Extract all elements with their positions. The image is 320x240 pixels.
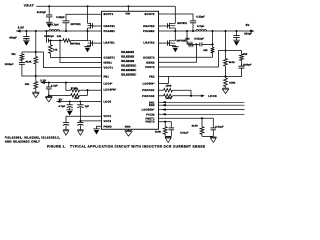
junction FB2 node xyxy=(224,75,226,77)
IC part number list xyxy=(121,50,137,77)
junction VCC2 node xyxy=(79,120,81,122)
capacitor 4x10uF xyxy=(46,6,52,22)
resistor 10k FB1 bottom label xyxy=(25,83,30,86)
node LDO5 pullup label xyxy=(208,95,217,98)
ground below 330uF output 2 xyxy=(233,40,240,46)
svg-text:10k: 10k xyxy=(25,83,30,86)
resistor 750 ch1 xyxy=(20,52,24,61)
wire ISEN2 xyxy=(159,44,197,62)
junction PGOOD pullup node xyxy=(190,95,192,97)
svg-text:750: 750 xyxy=(11,53,16,56)
figure caption xyxy=(47,145,205,149)
wire EN1 input xyxy=(159,101,245,104)
wire PHASE1 / output line xyxy=(16,30,101,32)
svg-text:0.022µF: 0.022µF xyxy=(44,35,54,38)
wire LDO5EN input xyxy=(159,108,245,111)
junction divider1 VOUT tap xyxy=(35,51,37,53)
junction phase1 at Q1 xyxy=(86,30,88,32)
svg-text:VBAT: VBAT xyxy=(24,4,34,8)
op-amp U1 ISL6238x controller IC body xyxy=(102,11,159,129)
resistor 750 ch1 label xyxy=(11,53,16,56)
svg-text:4x10µF: 4x10µF xyxy=(37,11,47,14)
pin VIN label xyxy=(125,12,130,15)
wire LDO3 xyxy=(41,82,102,84)
wire VIN riser xyxy=(128,6,130,11)
svg-text:14k: 14k xyxy=(203,49,208,52)
wire GND stub xyxy=(128,129,130,130)
junction FB1 node xyxy=(35,75,37,77)
svg-text:5V: 5V xyxy=(246,23,250,27)
capacitor 4.7uF LDO3 label xyxy=(51,85,58,88)
ground below VCC2 cap xyxy=(77,130,83,135)
transistor Q2 IRF7832 label xyxy=(70,43,80,46)
resistor 66.1k label xyxy=(229,61,236,64)
junction LDO3 at 4.7uF xyxy=(48,82,50,84)
resistor 49.9k label xyxy=(25,60,32,63)
svg-text:UGATE2: UGATE2 xyxy=(143,25,155,28)
wire sense cap riser 2 xyxy=(212,31,214,44)
svg-text:14k: 14k xyxy=(57,35,62,38)
svg-text:19.6k: 19.6k xyxy=(155,130,162,133)
resistor 10k LDO3FB bottom label xyxy=(74,97,79,100)
svg-text:330µF: 330µF xyxy=(244,33,252,36)
wire LGATE1 xyxy=(93,42,102,44)
capacitor 330uF output 1 label xyxy=(9,36,17,39)
inductor L1 4.7uH label xyxy=(51,24,58,27)
wire Q1 source to phase xyxy=(87,28,89,31)
wire VBAT rail xyxy=(36,5,175,7)
footnote text xyxy=(5,135,60,143)
inductor L1 4.7uH xyxy=(49,30,60,31)
capacitor 4x10uF value label xyxy=(37,11,47,14)
resistor 100k PGOOD1 label xyxy=(166,85,172,88)
resistor 66.1k FB2 top xyxy=(224,51,228,77)
svg-text:IRF7821: IRF7821 xyxy=(177,22,187,25)
svg-text:OCSET1: OCSET1 xyxy=(104,57,116,60)
svg-text:ISL62381: ISL62381 xyxy=(121,50,134,54)
wire to LDO5 pullup xyxy=(191,95,201,97)
junction sense row 2 at OCSET2 resistor xyxy=(211,43,213,45)
wire Q4 source to ground xyxy=(174,45,176,46)
ground below FSET2 network xyxy=(165,137,172,142)
svg-text:FSET2: FSET2 xyxy=(146,121,155,124)
svg-text:ISL62382C: ISL62382C xyxy=(121,68,137,72)
svg-text:VCC2: VCC2 xyxy=(104,120,112,123)
svg-text:LGATE1: LGATE1 xyxy=(104,42,116,45)
wire FSET2 network bottom xyxy=(165,135,171,137)
wire Q2 source to ground xyxy=(87,45,89,46)
resistor 14k OCSET2 xyxy=(211,44,215,57)
wire EN2 input xyxy=(159,104,245,107)
svg-text:VIN: VIN xyxy=(125,12,130,15)
wire ISEN1 xyxy=(60,41,102,63)
svg-text:24.3k: 24.3k xyxy=(192,125,199,128)
junction sense row at OCSET1 resistor xyxy=(49,39,51,41)
svg-text:1200µF: 1200µF xyxy=(5,63,14,66)
wire UGATE1 xyxy=(93,25,102,27)
IC left pin labels xyxy=(104,13,117,128)
wire VBAT to Q3 drain xyxy=(174,6,176,23)
junction LDO3FB node xyxy=(86,89,88,91)
svg-text:EN2: EN2 xyxy=(149,104,155,107)
capacitor 0.01uF FSET1 label xyxy=(215,126,224,129)
ground below 9.09k FB2 xyxy=(222,88,229,93)
node 3.3V output label xyxy=(18,25,24,29)
ground below 330uF output 1 xyxy=(23,40,30,46)
wire sense row 1a xyxy=(49,40,63,42)
wire ground bus LDO3 xyxy=(49,95,71,97)
resistor 10k LDO3FB bottom xyxy=(71,94,88,98)
ground below Q4 xyxy=(172,47,179,53)
wire phase1 to Q2 drain xyxy=(87,31,89,41)
junction divider2 VOUT tap xyxy=(224,49,226,51)
svg-text:FIGURE 1.: FIGURE 1. xyxy=(47,145,66,149)
svg-text:VOUT1: VOUT1 xyxy=(104,67,114,70)
pin GND label xyxy=(125,126,131,129)
resistor 19.6k FSET2 label xyxy=(155,130,162,133)
wire VOUT1 xyxy=(36,52,102,68)
inductor L2 4.7uH label xyxy=(197,25,204,28)
inductor L2 4.7uH xyxy=(196,30,207,31)
capacitor 0.022uF sense 2 xyxy=(200,42,213,46)
junction LDO5 at 4.7uF xyxy=(69,100,71,102)
capacitor 330uF output 1 xyxy=(23,31,29,40)
svg-text:4.7µF: 4.7µF xyxy=(58,105,65,108)
junction phase2 at bootstrap cap xyxy=(192,30,194,32)
capacitor 330uF output 2 xyxy=(233,31,239,40)
wire sense row 1b xyxy=(71,40,88,42)
svg-text:PHASE1: PHASE1 xyxy=(104,30,116,33)
svg-text:PGOOD2: PGOOD2 xyxy=(142,95,155,98)
svg-text:1µF: 1µF xyxy=(85,105,90,108)
svg-text:LDO5EN*: LDO5EN* xyxy=(142,109,155,112)
resistor 100k PGOOD1 xyxy=(159,88,192,95)
svg-text:0.22µF: 0.22µF xyxy=(196,16,205,19)
transistor Q4 IRF7832 label xyxy=(177,39,187,42)
wire VCC2 xyxy=(80,120,101,122)
arrow LDO5 pullup xyxy=(201,94,205,97)
wire LDO3FB node xyxy=(80,89,88,91)
junction LDO5 at 1uF xyxy=(79,100,81,102)
node VBAT label xyxy=(24,4,34,8)
wire PHASE2 / output line 2 xyxy=(159,30,251,32)
resistor 9.09k FB2 bottom xyxy=(224,77,228,89)
IC right pin labels xyxy=(142,13,155,124)
resistor 17.4k LDO3FB xyxy=(66,83,80,92)
junction sense row 2 at ISEN2 xyxy=(195,43,197,45)
resistor 9.09k FB2 bottom label xyxy=(229,82,236,85)
svg-text:4.7µH: 4.7µH xyxy=(51,24,58,27)
svg-text:IRF7821: IRF7821 xyxy=(71,23,81,26)
junction phase2 at Q3 xyxy=(174,30,176,32)
junction output2 at sense cap xyxy=(211,30,213,32)
capacitor 0.22uF bootstrap 2 xyxy=(190,21,197,31)
resistor 14k sense 2 label xyxy=(185,37,190,40)
capacitor 1200uF ch2 xyxy=(226,61,245,77)
svg-text:VOUT2: VOUT2 xyxy=(145,66,155,69)
svg-text:LGATE2: LGATE2 xyxy=(143,42,155,45)
capacitor 330uF output 2 label xyxy=(244,33,252,36)
resistor 19.6k FSET2 xyxy=(163,122,167,137)
wire VCC1 xyxy=(66,115,102,117)
svg-text:LDO3*: LDO3* xyxy=(104,82,113,85)
svg-text:9.09k: 9.09k xyxy=(229,82,236,85)
svg-text:49.9k: 49.9k xyxy=(25,60,32,63)
capacitor 0.22uF bootstrap 2 label xyxy=(196,16,205,19)
resistor 17.4k LDO3FB label xyxy=(71,87,78,90)
capacitor 4.7uF LDO5 xyxy=(67,102,73,110)
svg-text:4.7µH: 4.7µH xyxy=(197,25,204,28)
resistor 14k sense 1 label xyxy=(57,35,62,38)
junction on VBAT rail at VIN xyxy=(127,5,129,7)
wire Q1 drain xyxy=(87,6,89,23)
capacitor 1200uF ch1 xyxy=(19,61,36,77)
arrow 5V output xyxy=(250,30,254,33)
capacitor 4.7uF LDO3 xyxy=(46,83,52,96)
wire BOOT1 xyxy=(66,14,102,21)
capacitor 0.01uF FSET2 xyxy=(169,122,175,137)
wire OCSET1 xyxy=(50,57,101,59)
wire LGATE2 xyxy=(159,42,168,44)
junction output1 at divider xyxy=(35,30,37,32)
capacitor 4.7uF LDO5 label xyxy=(58,105,65,108)
resistor 14k OCSET1 xyxy=(49,41,53,58)
node 5V output label xyxy=(246,23,250,27)
svg-text:ISL62383: ISL62383 xyxy=(121,59,134,63)
svg-text:FB1: FB1 xyxy=(104,76,110,79)
wire BOOT2 xyxy=(159,14,194,21)
wire UGATE2 xyxy=(159,25,168,27)
svg-text:IRF7832: IRF7832 xyxy=(70,43,80,46)
node LDO5 5V label xyxy=(59,99,63,102)
svg-text:330µF: 330µF xyxy=(9,36,17,39)
resistor 100k PGOOD2 xyxy=(159,94,192,98)
junction FSET2 at resistor xyxy=(164,121,166,123)
wire LDO3FB xyxy=(87,89,101,91)
wire sense row 2a xyxy=(193,43,200,45)
wire FB2 xyxy=(159,76,226,78)
wire VOUT2 xyxy=(159,51,226,68)
junction LDO3 at 17.4k xyxy=(65,82,67,84)
junction on VBAT rail at input cap xyxy=(48,5,50,7)
svg-text:PGND: PGND xyxy=(104,125,112,128)
junction output1 at 330uF xyxy=(25,30,27,32)
wire divider2 top xyxy=(225,31,227,51)
ground below 10k FB1 xyxy=(32,92,39,97)
ground below VCC1 cap xyxy=(63,130,69,135)
resistor 750 ch2 xyxy=(240,51,244,61)
svg-text:100k: 100k xyxy=(166,85,172,88)
svg-text:3.3V: 3.3V xyxy=(18,25,24,29)
svg-text:OCSET2: OCSET2 xyxy=(143,56,155,59)
capacitor 0.01uF FSET1 xyxy=(211,118,217,136)
svg-text:AND ISL62382C ONLY: AND ISL62382C ONLY xyxy=(5,140,40,144)
resistor 14k OCSET2 label xyxy=(203,49,208,52)
svg-text:ISL62383C: ISL62383C xyxy=(121,73,137,77)
resistor 750 ch2 label xyxy=(243,53,248,56)
transistor Q1 IRF7821 high-side MOSFET xyxy=(88,23,93,29)
transistor Q3 IRF7821 label xyxy=(177,22,187,25)
junction output2 at 330uF xyxy=(235,30,237,32)
wire 750 branch top 2 xyxy=(226,50,242,52)
ground below LDO3 cap xyxy=(45,97,52,102)
junction phase2 at sense resistor xyxy=(186,30,188,32)
svg-text:TYPICAL APPLICATION CIRCUIT WI: TYPICAL APPLICATION CIRCUIT WITH INDUCTO… xyxy=(70,145,205,149)
capacitor 0.01uF FSET2 label xyxy=(180,132,189,135)
junction sense row at ISEN1 xyxy=(59,39,61,41)
capacitor 1uF VCC filter xyxy=(77,102,83,121)
svg-text:BOOT2: BOOT2 xyxy=(145,13,155,16)
ground below LDO5 4.7uF xyxy=(66,110,73,116)
ground below PGND xyxy=(93,129,100,135)
capacitor 0.022uF sense 1 label xyxy=(44,35,54,38)
capacitor 0.22uF bootstrap 1 label xyxy=(56,16,65,19)
svg-text:VCC1: VCC1 xyxy=(104,115,112,118)
svg-text:0.22µF: 0.22µF xyxy=(56,16,65,19)
svg-text:PHASE2: PHASE2 xyxy=(143,30,155,33)
ground below Q2 xyxy=(84,47,91,53)
arrow LDO3 3.3V output xyxy=(41,81,45,84)
junction output2 at divider xyxy=(224,30,226,32)
wire FSET2 xyxy=(159,121,172,123)
arrow 3.3V output xyxy=(16,30,20,33)
resistor 14k OCSET1 label xyxy=(53,48,58,51)
wire LDO3FB to 10k xyxy=(86,90,88,95)
svg-text:0.022µF: 0.022µF xyxy=(194,37,204,40)
ground below FSET1 network xyxy=(210,137,217,142)
junction FSET1 at resistor xyxy=(201,117,203,119)
capacitor 1200uF ch2 label xyxy=(243,63,252,66)
transistor Q2 IRF7832 low-side MOSFET xyxy=(88,40,93,46)
resistor 100k PGOOD2 label xyxy=(166,97,172,100)
wire LDO5IN xyxy=(159,77,169,84)
svg-text:LDO5IN*: LDO5IN* xyxy=(143,82,155,85)
svg-text:BOOT1: BOOT1 xyxy=(104,13,114,16)
node LDO3 3.3V label xyxy=(40,79,46,82)
transistor Q1 IRF7821 label xyxy=(71,23,81,26)
wire 750 branch top xyxy=(22,51,36,53)
svg-text:LDO5: LDO5 xyxy=(104,101,112,104)
svg-text:FCCM: FCCM xyxy=(146,113,154,116)
capacitor 0.22uF bootstrap 1 xyxy=(63,21,70,31)
wire divider1 top xyxy=(35,31,37,52)
junction on VBAT rail at Q1 drain xyxy=(86,5,88,7)
wire LDO5 xyxy=(57,101,102,103)
wire FSET1 xyxy=(159,117,214,119)
junction phase1 at bootstrap cap xyxy=(65,30,67,32)
resistor 24.3k FSET1 label xyxy=(192,125,199,128)
capacitor VCC1 bypass xyxy=(63,116,69,130)
resistor 24.3k FSET1 xyxy=(200,118,204,136)
svg-text:0.01µF: 0.01µF xyxy=(215,126,224,129)
svg-text:ISEN2: ISEN2 xyxy=(146,61,155,64)
wire Q3 source to phase xyxy=(174,28,176,31)
svg-text:ISL62382: ISL62382 xyxy=(121,54,134,58)
resistor 10k FB1 bottom xyxy=(34,76,38,92)
junction LDO3 cap at ground bus xyxy=(48,94,50,96)
wire FCCM input xyxy=(159,113,245,116)
capacitor 1200uF ch1 label xyxy=(5,63,14,66)
svg-text:PGOOD1: PGOOD1 xyxy=(142,89,155,92)
svg-text:LDO3FB*: LDO3FB* xyxy=(104,89,117,92)
svg-text:GND: GND xyxy=(125,126,131,129)
wire OCSET2 xyxy=(159,56,213,58)
svg-text:ISL62381C: ISL62381C xyxy=(121,64,137,68)
wire FSET1 network bottom xyxy=(202,135,213,137)
capacitor 1uF VCC filter label xyxy=(85,105,90,108)
wire PGND xyxy=(97,126,102,129)
resistor 14k sense 1 xyxy=(63,39,71,43)
arrow LDO5 5V output xyxy=(57,100,61,103)
svg-text:UGATE1: UGATE1 xyxy=(104,25,116,28)
svg-text:LDO5: LDO5 xyxy=(208,95,217,98)
capacitor 0.022uF sense 1 xyxy=(47,31,49,43)
resistor 14k sense 2 xyxy=(187,31,193,46)
transistor Q3 IRF7821 high-side MOSFET xyxy=(168,23,176,29)
transistor Q4 IRF7832 low-side MOSFET xyxy=(168,40,176,46)
svg-text:14k: 14k xyxy=(185,37,190,40)
ground below 4x10uF xyxy=(46,22,53,28)
svg-text:4.7µF: 4.7µF xyxy=(51,85,58,88)
svg-text:14k: 14k xyxy=(53,48,58,51)
ground below IC GND pin xyxy=(125,131,133,136)
svg-text:FB2: FB2 xyxy=(149,76,155,79)
wire phase2 to Q4 drain xyxy=(174,31,176,41)
capacitor VCC2 bypass xyxy=(77,121,83,130)
svg-text:ISEN1: ISEN1 xyxy=(104,62,113,65)
svg-text:66.1k: 66.1k xyxy=(229,61,236,64)
svg-text:0.01µF: 0.01µF xyxy=(180,132,189,135)
resistor 49.9k FB1 top xyxy=(34,52,38,76)
junction output1 at sense cap xyxy=(45,30,47,32)
capacitor 0.022uF sense 2 label xyxy=(194,37,204,40)
wire FB1 xyxy=(36,75,102,77)
